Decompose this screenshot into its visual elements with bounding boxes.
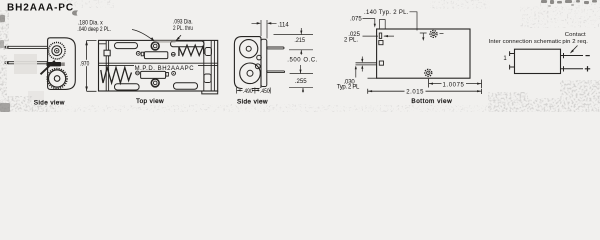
- pin 1 square: [379, 41, 383, 45]
- contact leaf diagonal: [41, 61, 55, 75]
- outer box: [377, 29, 470, 78]
- battery 1 positive pin: [136, 52, 140, 56]
- output wire minus: [561, 53, 584, 58]
- svg-text:.255: .255: [295, 79, 308, 85]
- dim 2.015: [368, 89, 482, 94]
- bottom-right mounting tab: [202, 91, 218, 94]
- schematic box: [515, 49, 561, 73]
- spring 1: [179, 45, 204, 56]
- slot upper-right: [171, 41, 205, 47]
- left contact pin top: [510, 51, 515, 56]
- battery 2 nub: [166, 73, 169, 77]
- battery 1 end-on: [240, 40, 258, 58]
- negative contact plate (black bar): [47, 62, 62, 66]
- bottom dims .490 .450: [237, 88, 271, 94]
- battery 2 end-on: [240, 63, 261, 84]
- coil spring end-on (top knurled circle): [49, 42, 66, 59]
- holder body outline: [48, 38, 76, 90]
- PC face plate: [261, 39, 267, 86]
- value .970: [81, 60, 93, 66]
- pin 2 protruding: [356, 63, 377, 65]
- leader to hole: [176, 35, 181, 40]
- svg-text:2 PL. thru: 2 PL. thru: [173, 25, 193, 32]
- left contact pin bottom: [510, 65, 515, 70]
- marking text M.P.D. BH2AAAPC: [134, 64, 198, 71]
- hole 1 (.093 thru): [430, 30, 437, 37]
- plus symbol: [585, 66, 590, 71]
- svg-text:Inter connection schematic: Inter connection schematic: [489, 39, 562, 45]
- slot lower-left: [115, 84, 140, 90]
- pin 2 square: [379, 61, 383, 65]
- leader .025: [363, 35, 395, 37]
- dark artifact blob: [72, 10, 78, 15]
- svg-text:.490: .490: [243, 89, 253, 95]
- coil spring end-on (bottom knurled circle): [47, 69, 67, 89]
- arrowheads: [299, 31, 304, 92]
- contact pin 2 (left, lower): [8, 62, 48, 64]
- spring 2: [101, 68, 132, 84]
- svg-text:2.015: 2.015: [406, 89, 424, 95]
- pin 2 (right): [267, 71, 285, 73]
- dim .114: [252, 20, 277, 39]
- ext lines right: [274, 35, 314, 88]
- contact pin 1 (left, upper): [8, 46, 48, 48]
- dim .030 arrows: [356, 57, 363, 78]
- svg-text:Bottom view: Bottom view: [411, 98, 452, 105]
- svg-text:.075: .075: [350, 17, 362, 23]
- slot lower-right: [174, 83, 198, 89]
- svg-text:.140 Typ. 2 PL.: .140 Typ. 2 PL.: [364, 10, 409, 16]
- svg-text:pin 2 req.: pin 2 req.: [562, 39, 588, 45]
- battery 2 negative pin: [136, 71, 140, 75]
- svg-text:.500 O.C.: .500 O.C.: [287, 58, 318, 64]
- svg-text:.215: .215: [294, 38, 305, 44]
- dim line stubs: [301, 28, 304, 93]
- dim 1.0075: [429, 79, 482, 88]
- svg-text:2 PL.: 2 PL.: [344, 38, 358, 44]
- leader to hole 1: [410, 12, 418, 31]
- ext line bottom left: [368, 77, 377, 79]
- left inner wall: [99, 40, 109, 91]
- svg-text:.114: .114: [278, 23, 290, 29]
- battery 1 nub: [141, 52, 144, 56]
- dim line .970: [87, 41, 97, 92]
- boss circle B: [255, 64, 260, 69]
- leader to ring 1: [132, 30, 154, 41]
- minus symbol: [586, 55, 590, 57]
- svg-text:Typ. 2 PL: Typ. 2 PL: [337, 85, 360, 91]
- leader .075: [363, 19, 375, 26]
- svg-text:Top view: Top view: [136, 98, 164, 105]
- battery 1 body: [144, 52, 167, 59]
- svg-text:1.0075: 1.0075: [443, 82, 465, 88]
- right inner wall: [204, 40, 215, 91]
- pin 1 bar: [379, 33, 381, 38]
- bracket .140: [379, 20, 385, 29]
- svg-text:.450: .450: [260, 89, 270, 95]
- center mark hole 1: [420, 33, 427, 39]
- svg-text:Contact: Contact: [565, 32, 586, 38]
- right wall contact bottom: [204, 74, 211, 83]
- top edge dark specks: [541, 0, 597, 7]
- battery 1 negative pin: [171, 52, 175, 56]
- output wire plus: [561, 66, 584, 71]
- outer box: [99, 40, 218, 91]
- leader contact pin: [571, 46, 578, 53]
- pin 1 (right): [267, 47, 284, 49]
- recess ring 1 (.180 dia): [151, 42, 159, 50]
- svg-text:.970: .970: [80, 61, 90, 68]
- left wall contact plate: [104, 50, 110, 56]
- hole 2: [425, 69, 432, 76]
- middle divider: [99, 63, 218, 65]
- battery 2 positive pin: [172, 71, 176, 75]
- recess ring 2: [151, 79, 159, 87]
- battery 2 body: [141, 71, 166, 78]
- boss circle A: [257, 55, 262, 60]
- slot upper-left: [115, 43, 138, 49]
- holder body: [234, 37, 261, 89]
- svg-text:.040 deep 2 PL.: .040 deep 2 PL.: [77, 26, 111, 33]
- right wall contact top: [205, 48, 212, 56]
